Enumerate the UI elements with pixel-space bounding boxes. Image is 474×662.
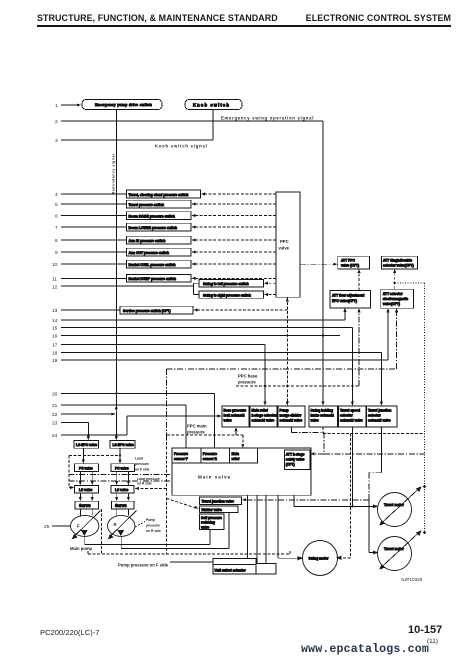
svg-text:lock solenoid: lock solenoid bbox=[224, 414, 245, 418]
wire 22 (arrow into redundancy line) bbox=[61, 413, 113, 415]
pressure sensor F bbox=[172, 448, 201, 463]
ATT flow adjustment EPC valve (OPT) bbox=[330, 290, 371, 308]
switch: bucket DUMP pressure switch bbox=[127, 275, 192, 283]
svg-text:Pump: Pump bbox=[146, 518, 155, 522]
switch: arm IN pressure switch bbox=[127, 236, 192, 244]
pressure switch rows 4-11 wires bbox=[61, 193, 127, 195]
switch: swing to right pressure switch bbox=[199, 291, 264, 298]
svg-text:7: 7 bbox=[55, 225, 58, 231]
svg-text:23: 23 bbox=[52, 421, 58, 427]
svg-text:PPC: PPC bbox=[280, 239, 289, 244]
pump R delivery line to divider valve bbox=[120, 536, 122, 548]
svg-text:Load: Load bbox=[135, 457, 143, 461]
switch: arm OUT pressure switch bbox=[127, 248, 192, 256]
wire 21 to pressure sensor F bbox=[61, 404, 186, 406]
svg-text:15: 15 bbox=[52, 326, 58, 332]
solenoid valve: base pressure lock bbox=[222, 406, 249, 427]
swing motor M1 bbox=[303, 541, 338, 576]
main relief valve bbox=[230, 448, 258, 463]
svg-text:9: 9 bbox=[55, 250, 58, 256]
svg-text:solenoid valve: solenoid valve bbox=[368, 419, 391, 423]
swing motor feed line bbox=[277, 495, 279, 558]
LS-EPC valve F bbox=[74, 441, 99, 449]
svg-text:on R side: on R side bbox=[137, 482, 152, 486]
PPC base pressure drop from PPC valve (dashed vertical) bbox=[286, 297, 288, 402]
main valve assembly bbox=[172, 448, 311, 495]
travel motor M2 bbox=[378, 493, 412, 527]
svg-text:16: 16 bbox=[52, 334, 58, 340]
wire 1 to emergency pump drive switch bbox=[61, 104, 78, 106]
svg-text:Boom LOWER pressure switch: Boom LOWER pressure switch bbox=[129, 226, 178, 230]
svg-text:relief: relief bbox=[232, 457, 241, 461]
return lines from main valve to unit actuator bbox=[246, 495, 248, 558]
svg-text:6: 6 bbox=[55, 214, 58, 220]
travel junction valve bbox=[200, 497, 242, 504]
main pump F bbox=[71, 515, 99, 536]
wire 14 to ATT flow adjustment EPC valve bbox=[61, 319, 345, 321]
travel junction selector pilot to travel junction valve and motor R bbox=[380, 427, 382, 473]
solenoid valve: pump merge-divider bbox=[278, 406, 305, 427]
ATT selector electromagnetic valve (OPT) bbox=[381, 289, 414, 308]
svg-text:21: 21 bbox=[52, 403, 58, 409]
solenoid valve: swing holding brake bbox=[309, 406, 338, 427]
wire 18 to travel junction selector solenoid bbox=[61, 352, 381, 354]
dash-dot riser to ATT flow adjustment valve bbox=[358, 311, 360, 386]
svg-text:Swing to right pressure switch: Swing to right pressure switch bbox=[203, 293, 251, 297]
redundancy signal vertical wire bbox=[115, 110, 117, 408]
svg-text:Base pressure: Base pressure bbox=[224, 409, 247, 413]
svg-text:merge-divider: merge-divider bbox=[280, 414, 303, 418]
svg-text:sensor R: sensor R bbox=[203, 457, 218, 461]
svg-text:valve (OPT): valve (OPT) bbox=[341, 264, 359, 268]
switch: travel pressure switch bbox=[127, 200, 192, 208]
wire 16 (joins emergency swing line) bbox=[61, 335, 340, 337]
LS valve F bbox=[75, 485, 99, 493]
svg-text:ATT flow adjustment: ATT flow adjustment bbox=[332, 294, 365, 298]
self pressure reducing valve bbox=[200, 514, 225, 530]
svg-text:F: F bbox=[77, 524, 80, 529]
LS-EPC valve R bbox=[110, 441, 135, 449]
svg-text:pressure: pressure bbox=[238, 380, 256, 385]
svg-text:valve: valve bbox=[201, 525, 209, 529]
svg-text:pressure: pressure bbox=[135, 462, 149, 466]
svg-text:Servo: Servo bbox=[79, 503, 91, 508]
svg-text:safety valve: safety valve bbox=[286, 458, 305, 462]
wire 20 to pressure sensor R bbox=[61, 392, 214, 394]
svg-text:valve(OPT): valve(OPT) bbox=[383, 302, 400, 306]
svg-text:Unit swivel actuator: Unit swivel actuator bbox=[215, 569, 247, 573]
svg-text:Travel junction: Travel junction bbox=[368, 409, 391, 413]
svg-text:Boom RAISE pressure switch: Boom RAISE pressure switch bbox=[129, 214, 175, 218]
svg-text:Swing to left pressure switch: Swing to left pressure switch bbox=[203, 282, 249, 286]
ATT Single/Double selector valve (OPT) bbox=[382, 256, 418, 269]
PC to LS valve links bbox=[79, 471, 81, 483]
emergency swing vertical wire to swing brake solenoid bbox=[322, 121, 324, 403]
svg-text:LS valve: LS valve bbox=[115, 488, 129, 492]
svg-text:Pump: Pump bbox=[280, 409, 289, 413]
ATT 2-stage safety valve (OPT) bbox=[285, 450, 311, 470]
svg-text:Main relief: Main relief bbox=[252, 409, 269, 413]
svg-text:Main valve: Main valve bbox=[198, 475, 231, 480]
dashed PPC main pressure line to main relief bbox=[167, 434, 243, 436]
svg-text:Emergency swing operation sign: Emergency swing operation signal bbox=[221, 116, 314, 121]
svg-text:on F side: on F side bbox=[135, 468, 150, 472]
svg-text:18: 18 bbox=[52, 351, 58, 357]
solenoid valve: travel speed selector bbox=[339, 406, 367, 427]
svg-text:PPC main: PPC main bbox=[187, 424, 207, 429]
svg-text:11: 11 bbox=[52, 276, 57, 282]
LS-EPC to PC valve links bbox=[82, 448, 84, 461]
svg-text:Servo: Servo bbox=[115, 503, 127, 508]
svg-text:22: 22 bbox=[52, 412, 58, 418]
svg-text:Bucket DUMP pressure switch: Bucket DUMP pressure switch bbox=[129, 277, 177, 281]
svg-text:24: 24 bbox=[52, 433, 58, 439]
svg-text:12: 12 bbox=[52, 284, 58, 290]
svg-text:valve: valve bbox=[224, 419, 232, 423]
svg-text:Emergency pump drive switch: Emergency pump drive switch bbox=[95, 103, 152, 107]
svg-text:ATT selector: ATT selector bbox=[383, 292, 403, 296]
PC valve F bbox=[75, 464, 99, 472]
svg-text:LS valve: LS valve bbox=[79, 488, 93, 492]
svg-text:Travel pressure switch: Travel pressure switch bbox=[129, 203, 165, 207]
svg-text:ATT PPC: ATT PPC bbox=[341, 259, 355, 263]
svg-text:R: R bbox=[114, 522, 117, 527]
svg-text:13: 13 bbox=[52, 308, 58, 314]
ATT PPC valve (OPT) bbox=[338, 256, 370, 269]
svg-text:valve: valve bbox=[311, 419, 319, 423]
switch: swing to left pressure switch bbox=[199, 280, 264, 287]
svg-text:19: 19 bbox=[52, 358, 58, 364]
svg-text:valve: valve bbox=[279, 246, 290, 251]
svg-text:Pressure: Pressure bbox=[203, 452, 217, 456]
dashed load pressure arrow into LS valve R bbox=[137, 487, 167, 489]
svg-text:selector: selector bbox=[340, 414, 353, 418]
svg-text:Self pressure: Self pressure bbox=[201, 516, 222, 520]
svg-text:pressure: pressure bbox=[146, 524, 160, 528]
switch: service pressure switch (OPT) bbox=[120, 306, 193, 314]
svg-text:Service pressure switch (OPT): Service pressure switch (OPT) bbox=[123, 309, 171, 313]
switch: travel steering stand pressure switch bbox=[127, 190, 201, 198]
svg-text:PPC base: PPC base bbox=[238, 374, 258, 379]
dashed riser to base pressure lock solenoid bbox=[235, 430, 237, 435]
dashed base pressure manifold y=386 bbox=[236, 385, 359, 387]
wire 25 to main pump F bbox=[52, 525, 70, 527]
wire 13 to service pressure switch bbox=[61, 309, 120, 311]
svg-text:Load pressure: Load pressure bbox=[137, 477, 160, 481]
servo R bbox=[112, 501, 135, 509]
dotted ATT line to travel motors bbox=[395, 282, 425, 284]
svg-text:selector: selector bbox=[368, 414, 381, 418]
svg-text:20: 20 bbox=[52, 392, 58, 398]
svg-text:Bucket CURL pressure switch: Bucket CURL pressure switch bbox=[129, 263, 176, 267]
svg-text:Arm OUT pressure switch: Arm OUT pressure switch bbox=[129, 251, 170, 255]
wire 3: knob switch signal bbox=[61, 139, 213, 141]
svg-text:EPC valve(OPT): EPC valve(OPT) bbox=[332, 299, 357, 303]
svg-text:Pressure: Pressure bbox=[174, 452, 188, 456]
svg-text:solenoid valve: solenoid valve bbox=[280, 419, 303, 423]
switch: boom LOWER pressure switch bbox=[127, 223, 192, 231]
svg-text:10: 10 bbox=[52, 262, 58, 268]
svg-text:solenoid valve: solenoid valve bbox=[340, 419, 363, 423]
svg-text:17: 17 bbox=[52, 343, 58, 349]
svg-text:1: 1 bbox=[55, 103, 58, 109]
svg-text:on R side: on R side bbox=[146, 529, 161, 533]
svg-text:selector valve(OPT): selector valve(OPT) bbox=[383, 264, 414, 268]
svg-text:solenoid valve: solenoid valve bbox=[252, 419, 275, 423]
pump merge-divider pilot (dash-dot) to ATT 2-stage safety valve bbox=[291, 427, 293, 433]
pressure sensor R bbox=[201, 448, 230, 463]
svg-text:PC valve: PC valve bbox=[79, 466, 93, 470]
svg-text:Divider valve: Divider valve bbox=[202, 508, 223, 512]
knob switch bbox=[185, 100, 242, 110]
pilot ATT selector to ATT S/D valve (dashed, arrow up) bbox=[394, 272, 396, 290]
servo to pump links bbox=[79, 509, 81, 517]
svg-text:Redundancy signal: Redundancy signal bbox=[112, 154, 116, 194]
svg-text:LS-EPC valve: LS-EPC valve bbox=[113, 443, 134, 447]
wire 2: emergency swing operation signal bbox=[61, 120, 323, 122]
travel motor F feed line bbox=[293, 495, 295, 506]
svg-text:SJP10328: SJP10328 bbox=[401, 577, 423, 582]
svg-text:(OPT): (OPT) bbox=[286, 463, 295, 467]
svg-text:Main pump: Main pump bbox=[70, 546, 93, 551]
svg-text:4: 4 bbox=[55, 192, 58, 198]
wire 24 to base pressure lock solenoid bbox=[61, 434, 127, 436]
svg-text:14: 14 bbox=[52, 318, 58, 324]
pump F delivery line to self pressure reducing valve bbox=[84, 536, 86, 544]
solenoid valve: main relief 2-stage selector bbox=[250, 406, 277, 427]
servo F bbox=[75, 501, 99, 509]
svg-text:ATT Single/Double: ATT Single/Double bbox=[383, 259, 412, 263]
svg-text:8: 8 bbox=[55, 238, 58, 244]
pilot ATT flow adj to ATT PPC (dashed, arrow up) bbox=[358, 272, 360, 291]
numbered terminals 1-25 (left edge) bbox=[44, 103, 58, 530]
dashed pump pressure F sensing bracket bbox=[100, 509, 102, 554]
load pressure lines (dash-dot) bbox=[69, 474, 172, 476]
svg-text:Knob switch signal: Knob switch signal bbox=[155, 144, 208, 149]
svg-text:25: 25 bbox=[44, 524, 50, 530]
svg-text:Travel speed: Travel speed bbox=[340, 409, 360, 413]
svg-text:Pump pressure on F side: Pump pressure on F side bbox=[118, 563, 169, 568]
pilot line PPC valve to ATT PPC valve (dash-dot, arrow) bbox=[300, 263, 336, 265]
svg-text:5: 5 bbox=[55, 202, 58, 208]
switch: boom RAISE pressure switch bbox=[127, 212, 192, 220]
switch: bucket CURL pressure switch bbox=[127, 260, 192, 268]
swing brake pilot (dashed) to swing motor bbox=[322, 427, 324, 434]
main pump R bbox=[108, 515, 135, 536]
svg-text:2-stage selector: 2-stage selector bbox=[252, 414, 278, 418]
emergency pump drive switch bbox=[82, 100, 162, 110]
dashed pilot loop to LS valve F bbox=[69, 455, 120, 457]
wire 19 to ATT selector electromagnetic valve bbox=[61, 359, 388, 361]
wire 23 to LS-EPC valve F bbox=[61, 421, 88, 423]
svg-text:Travel junction valve: Travel junction valve bbox=[202, 499, 235, 503]
svg-text:Arm IN pressure switch: Arm IN pressure switch bbox=[129, 239, 166, 243]
svg-text:2: 2 bbox=[55, 119, 58, 125]
LS valve to servo links bbox=[79, 493, 81, 499]
svg-text:reducing: reducing bbox=[201, 521, 215, 525]
unit swivel actuator bbox=[213, 559, 256, 575]
svg-text:LS-EPC valve: LS-EPC valve bbox=[76, 443, 97, 447]
svg-text:brake solenoid: brake solenoid bbox=[311, 414, 334, 418]
svg-text:ATT 2-stage: ATT 2-stage bbox=[286, 453, 305, 457]
wire 12 to swing pressure switches bbox=[61, 285, 194, 287]
svg-text:Travel, steering stand pressur: Travel, steering stand pressure switch bbox=[129, 193, 189, 197]
PPC valve U1 bbox=[276, 192, 300, 297]
svg-text:sensor F: sensor F bbox=[174, 457, 188, 461]
svg-text:Knob switch: Knob switch bbox=[193, 103, 230, 108]
travel speed selector drop to motor feed bbox=[351, 427, 353, 506]
divider valve bbox=[200, 506, 239, 513]
solenoid valve: travel junction selector bbox=[367, 406, 398, 427]
wire 15 to travel speed selector solenoid bbox=[61, 327, 352, 329]
svg-text:Swing holding: Swing holding bbox=[311, 409, 334, 413]
travel motor M3 bbox=[378, 537, 412, 571]
svg-text:electromagnetic: electromagnetic bbox=[383, 297, 408, 301]
svg-text:Main: Main bbox=[232, 452, 240, 456]
dashed arrow into divider valve bbox=[167, 499, 196, 509]
pilot lines PPC valve to switches (dashed with arrows) bbox=[193, 194, 287, 310]
svg-text:PC valve: PC valve bbox=[115, 466, 129, 470]
svg-text:Swing motor: Swing motor bbox=[309, 557, 330, 561]
wire 17 to main relief solenoid bbox=[61, 344, 265, 346]
svg-text:pressure: pressure bbox=[187, 430, 205, 435]
LS valve R bbox=[111, 485, 134, 493]
PC valve R bbox=[111, 464, 135, 472]
PPC base pressure line (dash-dot) to ATT selector bbox=[167, 368, 397, 370]
dash-dot drop at x=166.6 toward pump valves bbox=[166, 369, 168, 438]
svg-text:3: 3 bbox=[55, 138, 58, 144]
